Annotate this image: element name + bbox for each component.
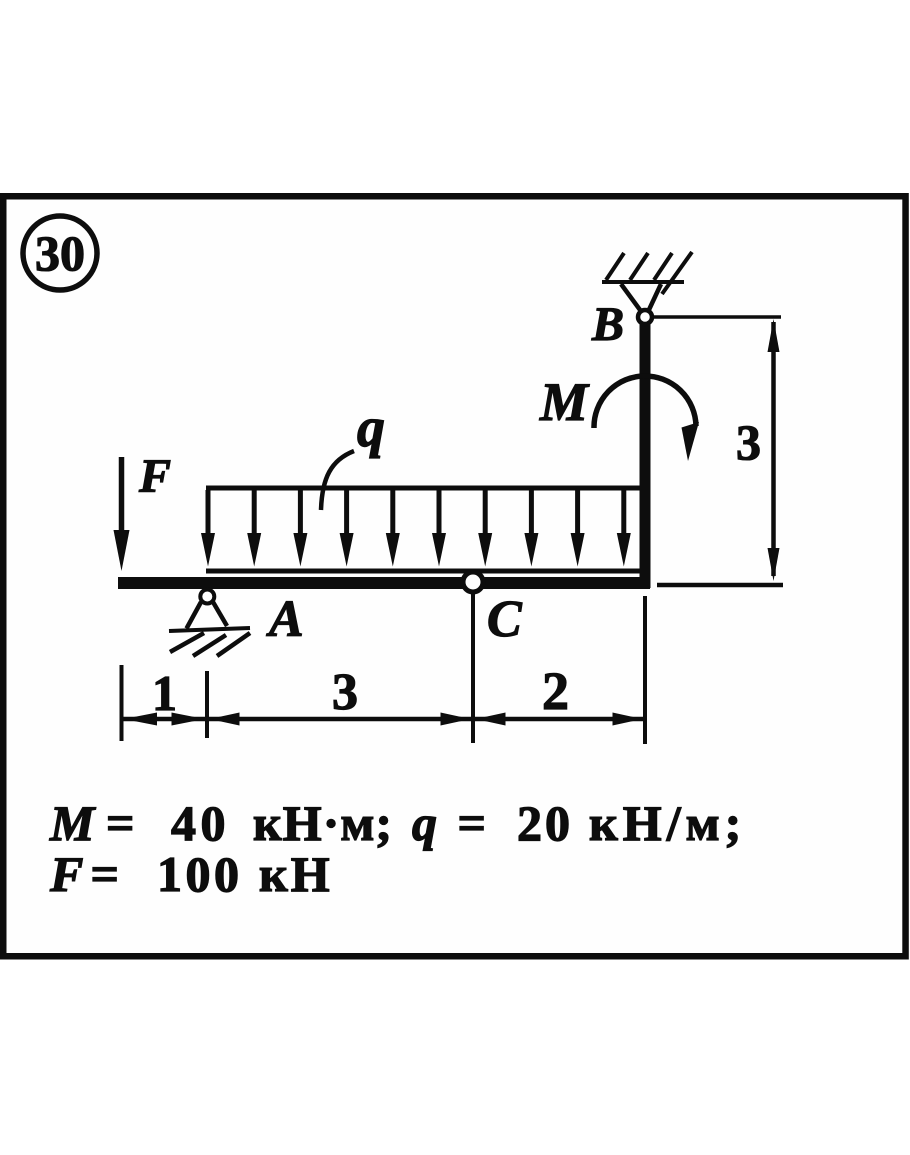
svg-text:F=100кН: F=100кН	[49, 846, 333, 902]
support B (pinned support, hatched ground above)	[602, 252, 692, 324]
bottom dimension: extension tick at C	[471, 594, 475, 743]
svg-text:3: 3	[332, 664, 358, 721]
svg-text:A: A	[266, 591, 304, 648]
support A (pin support with hatching)	[169, 590, 250, 657]
q leader line	[321, 451, 354, 510]
vertical dimension 3: bottom reference line	[657, 583, 783, 588]
distributed load q: top line	[206, 486, 644, 491]
svg-text:2: 2	[542, 661, 569, 721]
bottom dimension: extension tick at left end	[120, 665, 124, 741]
svg-text:C: C	[487, 591, 523, 648]
frame border	[3, 196, 905, 956]
bottom dimension: extension tick at right end	[643, 596, 647, 744]
beam AC (horizontal member)	[118, 577, 650, 589]
vertical dimension 3: top reference line	[652, 315, 781, 319]
vertical dimension 3: dimension line with arrows	[768, 319, 780, 581]
svg-text:M: M	[539, 372, 590, 432]
column bar (vertical member to B)	[640, 322, 651, 588]
svg-text:q: q	[357, 397, 385, 459]
svg-text:3: 3	[736, 414, 761, 470]
distributed load q arrows	[201, 490, 631, 567]
bottom dimension line	[122, 717, 646, 722]
svg-text:1: 1	[152, 665, 177, 721]
svg-text:30: 30	[35, 225, 85, 281]
moment M arc with arrowhead	[594, 376, 699, 461]
hinge C	[463, 572, 483, 592]
svg-text:F: F	[138, 450, 171, 503]
distributed load q: bottom line	[206, 569, 648, 574]
svg-text:B: B	[591, 298, 624, 351]
bottom dimension: extension tick at A	[205, 671, 209, 738]
bottom dimension arrowheads	[124, 713, 643, 726]
problem number circle 30	[23, 216, 97, 290]
force F arrow	[114, 457, 130, 571]
